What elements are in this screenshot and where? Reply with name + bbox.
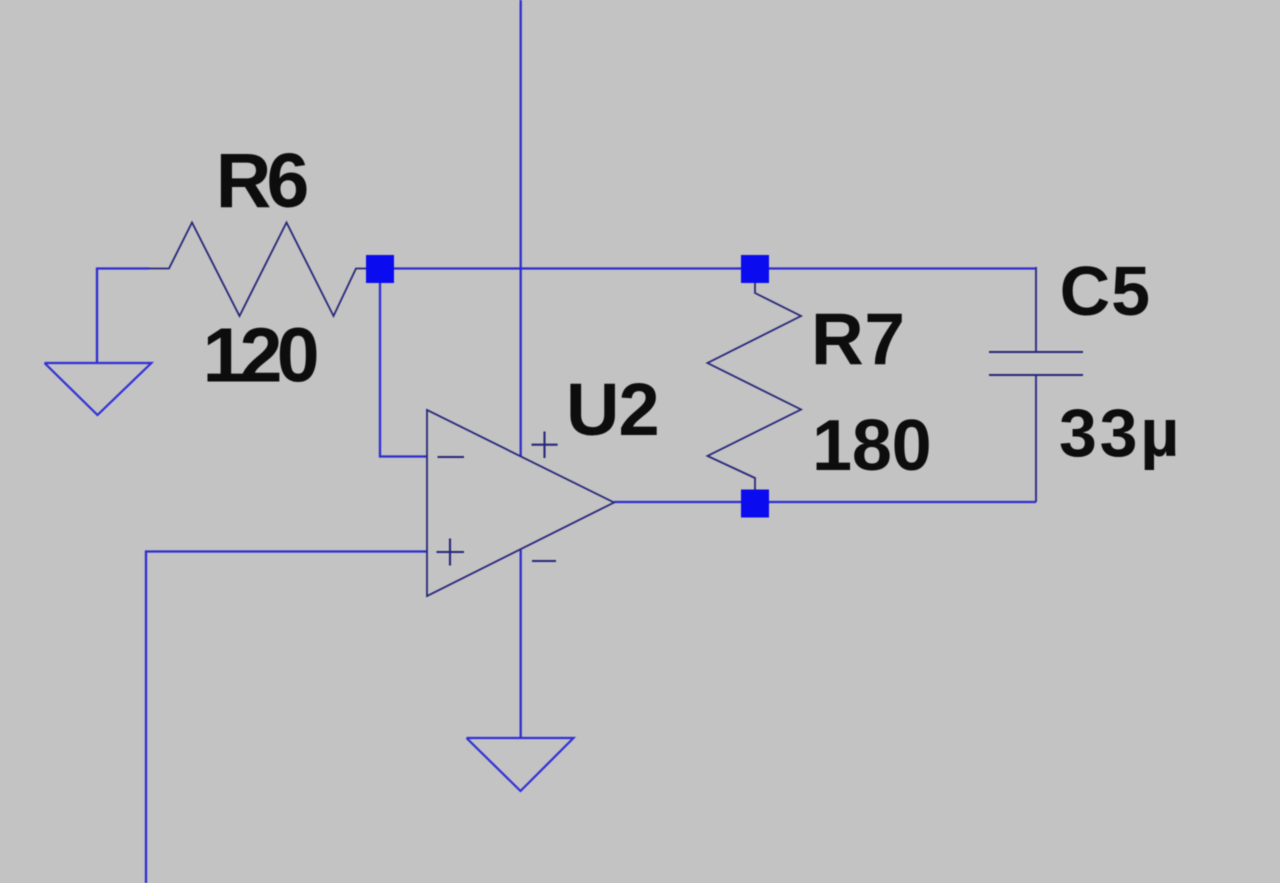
wire: non-inverting input of U2 to bottom-left, down off-screen [146,552,427,883]
wire: vertical V+ supply rail from top edge to op-amp top pin [520,0,522,457]
wire: V- supply from op-amp bottom pin down to ground [520,550,522,738]
op-amp U2 inverting input marker (-) [438,456,465,458]
svg-text:R6: R6 [216,138,309,224]
wire: U2 output to bottom rail across to C5 bottom [614,501,1036,503]
svg-text:U2: U2 [566,368,660,451]
op-amp U2 triangle body [427,410,614,596]
wire: C5 bottom lead from plate down to bottom rail [1035,375,1037,502]
wire: top horizontal net from node A to capacitor C5 top [379,267,1036,269]
op-amp U2 negative supply pin marker (-) [532,560,556,562]
node B: junction square at top of R7 [741,255,769,283]
svg-text:C5: C5 [1060,252,1151,330]
ground (below op-amp U2) [467,738,574,791]
capacitor C5 plate (top) [989,351,1083,353]
capacitor C5 plate (bottom) [989,374,1083,376]
op-amp U2 non-inverting input marker (+) [437,539,465,566]
node C: junction square at bottom of R7 / output rail [741,490,769,518]
node A: junction square at R6 / inverting input [366,255,394,283]
ground (left, below R6 input) [45,363,152,415]
op-amp U2 positive supply pin marker (+) [532,432,558,459]
resistor R6 (horizontal zigzag, 120 ohm) [149,223,368,317]
svg-text:R7: R7 [811,299,905,380]
wire: segment from left ground corner to R6 left lead [97,269,149,364]
wire: node A down to inverting input of U2 [380,280,427,457]
svg-text:33µ: 33µ [1059,395,1179,471]
resistor R7 (vertical zigzag, 180 ohm) [708,281,802,490]
wire: C5 top lead from top net corner down to plate [1035,267,1037,352]
svg-text:180: 180 [812,406,932,486]
svg-text:120: 120 [203,313,320,399]
